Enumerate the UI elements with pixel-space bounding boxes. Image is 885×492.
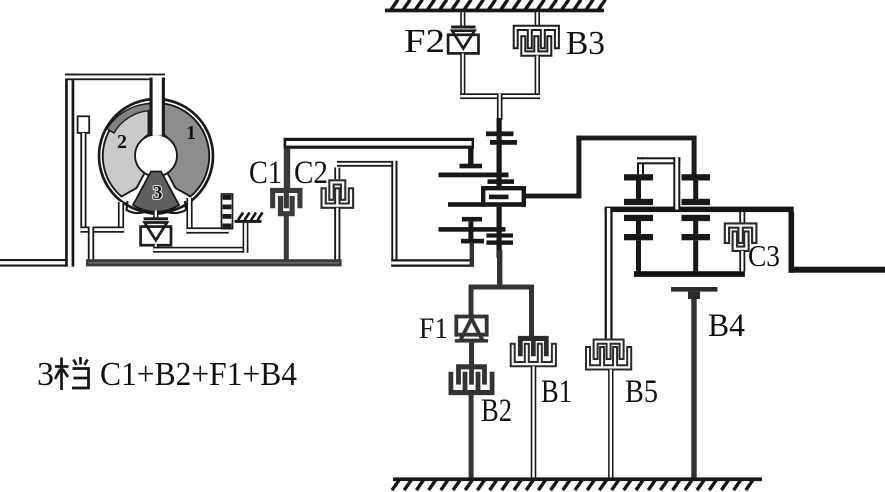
- front gear bar H: [486, 233, 513, 237]
- rear gearset right gear bars: [682, 174, 711, 180]
- wire C3 lower stem: [739, 251, 745, 272]
- oil pump (splined ladder): [222, 194, 233, 229]
- front sun gear bar I: [461, 239, 484, 244]
- svg-text:2: 2: [117, 131, 127, 153]
- converter housing top wall: [65, 74, 165, 81]
- wire B2 ground stem: [469, 395, 474, 479]
- svg-text:3: 3: [153, 182, 163, 204]
- rear gearset right stems: [693, 181, 698, 200]
- svg-text:C1: C1: [249, 155, 282, 191]
- rear gearset left stems: [636, 181, 641, 200]
- wire input stem to front gearset: [497, 93, 503, 120]
- front gear bar F: [462, 217, 482, 222]
- wire C1 hub stem: [284, 216, 289, 260]
- stator skirt: [127, 201, 187, 214]
- wire C2 upper stem: [334, 168, 340, 180]
- converter centre hub (hole): [135, 135, 177, 177]
- wire C1 output line to ring gear: [284, 138, 474, 149]
- brake B5: [586, 347, 631, 370]
- wire front output shaft (lower): [497, 250, 502, 287]
- stator 3 (wedge): [133, 172, 179, 212]
- wire C1 to front ring gear (riser): [468, 146, 473, 166]
- wire B4 stem: [691, 299, 696, 479]
- wire stator ground link: [153, 244, 158, 252]
- brake band B4 bar: [671, 287, 718, 292]
- planet carrier box of front gearset: [481, 186, 526, 207]
- ground (stator support): [235, 220, 262, 223]
- torque converter shell (circle): [99, 99, 213, 213]
- front gear bar D (inside carrier box): [489, 195, 509, 200]
- wire rear bottom line: [634, 271, 745, 277]
- one-way clutch F1: [456, 317, 486, 335]
- svg-text:F2: F2: [404, 23, 445, 60]
- wire front sun gear stem joint: [470, 259, 474, 267]
- wire turbine leg: [118, 202, 124, 233]
- front ring gear bar L1: [460, 164, 483, 169]
- wire turbine output shaft (main): [86, 259, 342, 266]
- front gear bar C: [488, 179, 515, 184]
- wire C2 hub stem: [334, 208, 340, 261]
- wire output shaft to right edge: [789, 212, 795, 273]
- converter housing left wall: [65, 74, 74, 267]
- front gear bar T2: [490, 140, 517, 145]
- wire pump leg to oil pump: [186, 198, 192, 234]
- clutch C1: [271, 188, 303, 208]
- svg-text:C2: C2: [294, 155, 328, 191]
- pump impeller 1 (right segment): [164, 104, 210, 197]
- wire B5 drop line: [605, 208, 613, 341]
- wire B3 lower stem: [535, 56, 540, 97]
- svg-text:B5: B5: [625, 374, 658, 410]
- wire B5 ground stem: [608, 370, 613, 480]
- brake B3: [514, 26, 559, 49]
- svg-text:1: 1: [186, 122, 196, 144]
- front planet mesh stem: [468, 222, 473, 239]
- wire C2 output line drop: [391, 161, 397, 267]
- lock-up clutch crescent: [107, 104, 151, 133]
- wire rear middle line: [605, 207, 794, 213]
- svg-text:B1: B1: [541, 374, 572, 410]
- wire carrier output link: [526, 194, 581, 199]
- wire converter input channel: [150, 78, 165, 136]
- wire B3 upper stem: [535, 12, 540, 26]
- wire front sun to F1-B1 split bar: [469, 285, 534, 290]
- wire front sun gear stem: [470, 244, 474, 265]
- svg-text:B3: B3: [566, 25, 605, 62]
- wire B1 drop: [529, 287, 534, 337]
- front gear bar J: [486, 240, 513, 244]
- ground (transmission case, top): [385, 9, 604, 13]
- turbine 2 (left segment): [103, 104, 149, 197]
- clutch C3: [725, 223, 757, 243]
- wire F2 lower stem: [460, 53, 465, 96]
- wire F1 to B2 stem: [469, 343, 474, 365]
- wire C1 riser: [284, 149, 290, 189]
- wire C2 output line upper run: [337, 161, 397, 167]
- wire F1 drop: [469, 287, 474, 317]
- shaft of front planetary gearset: [497, 118, 502, 258]
- svg-text:F1: F1: [419, 312, 448, 345]
- front gear bar G: [439, 227, 506, 232]
- turbine output stub: [78, 116, 90, 133]
- svg-text:3: 3: [37, 356, 54, 393]
- engine input shaft: [0, 259, 70, 267]
- front gear bar E / carrier box bottom: [448, 202, 526, 207]
- wire rear sun link (between columns): [637, 157, 644, 174]
- caption glyph dang: [55, 357, 89, 390]
- brake B1: [511, 344, 556, 367]
- wire F2 upper stem: [460, 12, 465, 26]
- svg-text:C1+B2+F1+B4: C1+B2+F1+B4: [100, 356, 297, 393]
- brake B2: [449, 372, 494, 395]
- svg-text:C3: C3: [748, 238, 780, 273]
- wire C2 output line to sun gear: [391, 259, 474, 267]
- wire C3 upper stem: [739, 212, 745, 224]
- front gear bar L2: [439, 173, 509, 178]
- svg-text:B4: B4: [708, 308, 745, 344]
- one-way clutch F2: [451, 26, 475, 29]
- svg-text:B2: B2: [481, 393, 512, 429]
- wire stator stem: [153, 211, 158, 219]
- clutch C2: [322, 188, 354, 208]
- wire B1 ground stem: [531, 366, 537, 479]
- front gear bar T1: [486, 131, 514, 136]
- one-way clutch (stator): [144, 217, 168, 220]
- ground (transmission case, bottom): [393, 477, 762, 481]
- wire F2/B3 merge link: [460, 93, 540, 99]
- rear gearset left gear bars: [624, 174, 653, 180]
